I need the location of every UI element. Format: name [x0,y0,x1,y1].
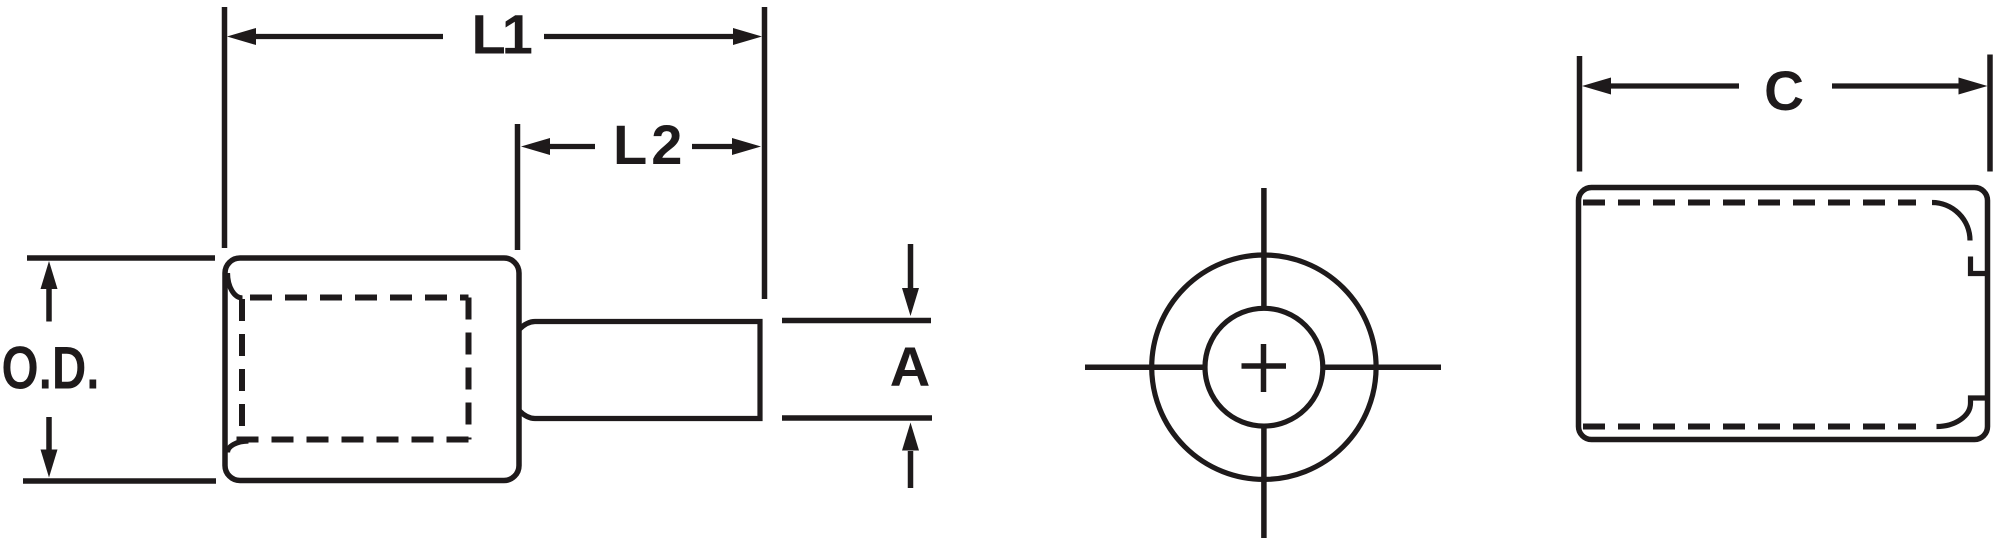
hidden line cavity right [466,298,472,440]
arrow A top (pointing down) [908,244,914,290]
extension line right (L1/L2, stem end) [762,7,768,299]
extension line C left [1577,56,1583,172]
cap body outline (top view) [1579,188,1988,440]
arrow O.D. top (pointing up) [46,286,52,322]
dimension line L2 left segment [546,144,595,149]
svg-text:L2: L2 [613,113,686,176]
svg-text:A: A [890,335,931,398]
centerline horizontal left segment [1085,364,1206,370]
extension line left (L1, body left edge) [222,7,228,248]
centerline vertical bottom segment [1261,426,1267,538]
dimension line L1 right segment [544,34,738,39]
hidden line cavity bottom [236,437,469,443]
inner corner arc top-left [228,273,243,298]
dimension line L2 right segment [692,144,737,149]
hidden line cavity top [250,295,469,301]
stem (tab) outline [519,322,760,419]
arrowhead L1 left [227,28,256,45]
arrow O.D. bottom (pointing down) [46,417,52,452]
open-end lip step top-right [1971,257,1988,274]
arrowhead L2 left [521,138,550,155]
hidden line top (top view) [1583,200,1916,206]
arrowhead L1 right [733,28,762,45]
open-end lip step bottom-right [1937,398,1988,427]
centerline vertical top segment [1261,188,1267,309]
end view inner circle [1205,308,1323,426]
svg-text:C: C [1764,60,1804,122]
extension line C right [1987,55,1993,172]
svg-text:L1: L1 [472,2,532,65]
open-end lip arc top-right [1932,203,1970,241]
arrowhead C right [1959,78,1988,95]
svg-text:O.D.: O.D. [2,335,100,401]
end view outer circle [1152,255,1376,479]
arrow A bottom (pointing up) [908,451,914,488]
cap body outline (side view) [225,258,519,481]
hidden line bottom (top view) [1583,424,1916,430]
extension line O.D. bottom [23,478,216,484]
dimension line C left segment [1607,83,1739,88]
extension line A bottom [782,415,932,421]
centerline horizontal right segment [1324,364,1441,370]
center mark cross vertical [1261,344,1267,392]
arrowhead C left [1582,78,1611,95]
center mark cross horizontal [1242,363,1287,369]
extension line O.D. top [27,255,215,261]
extension line L2 left (stem shoulder) [515,124,521,250]
dimension line L1 left segment [252,34,443,39]
dimension line C right segment [1832,83,1963,88]
extension line A top [782,318,931,324]
hidden line cavity left [239,299,245,438]
arrowhead L2 right [732,138,761,155]
inner corner arc bottom-left [228,441,249,453]
